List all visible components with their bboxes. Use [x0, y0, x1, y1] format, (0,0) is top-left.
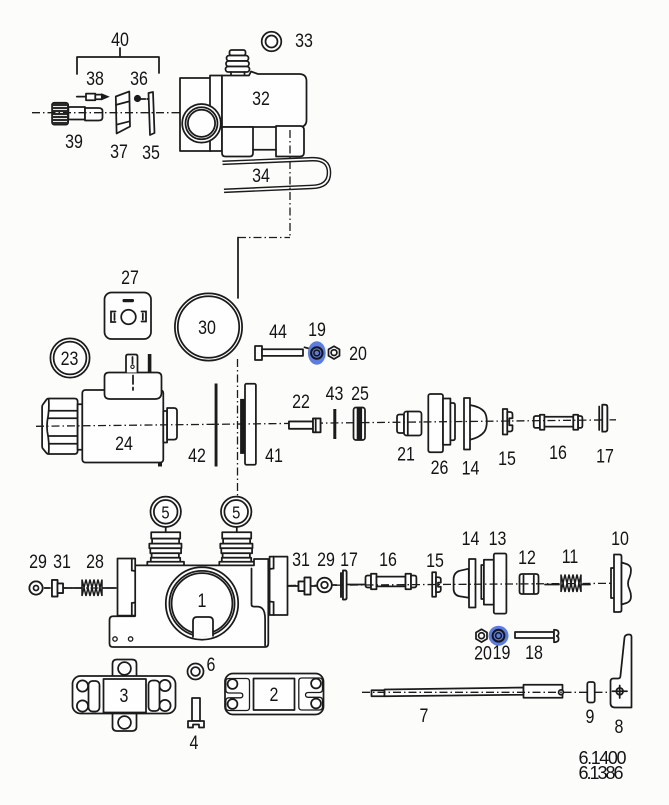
svg-text:7: 7	[420, 705, 429, 727]
svg-text:4: 4	[190, 732, 199, 754]
svg-text:16: 16	[549, 442, 567, 464]
svg-text:34: 34	[252, 165, 270, 187]
svg-text:29: 29	[317, 549, 335, 571]
svg-text:18: 18	[525, 642, 543, 664]
svg-text:14: 14	[462, 528, 480, 550]
svg-text:13: 13	[489, 528, 507, 550]
svg-text:21: 21	[397, 443, 415, 465]
svg-text:40: 40	[111, 29, 129, 51]
svg-text:11: 11	[562, 546, 579, 568]
svg-text:5: 5	[232, 503, 240, 523]
svg-text:26: 26	[431, 457, 449, 479]
svg-text:14: 14	[462, 457, 480, 479]
svg-text:19: 19	[493, 642, 511, 664]
svg-text:8: 8	[615, 716, 624, 738]
svg-text:10: 10	[611, 528, 629, 550]
svg-text:31: 31	[53, 551, 71, 573]
svg-text:3: 3	[120, 685, 129, 707]
svg-text:35: 35	[142, 142, 160, 164]
svg-text:5: 5	[161, 503, 169, 523]
svg-text:15: 15	[498, 448, 516, 470]
svg-text:15: 15	[426, 550, 444, 572]
svg-text:6: 6	[207, 654, 216, 676]
svg-text:23: 23	[61, 348, 79, 370]
svg-text:32: 32	[252, 88, 270, 110]
svg-text:31: 31	[292, 549, 310, 571]
svg-text:41: 41	[265, 445, 283, 467]
svg-text:22: 22	[292, 391, 310, 413]
svg-text:28: 28	[86, 551, 104, 573]
svg-text:20: 20	[474, 642, 492, 664]
svg-text:30: 30	[198, 317, 216, 339]
svg-text:38: 38	[86, 68, 104, 90]
svg-text:43: 43	[326, 383, 344, 405]
svg-text:12: 12	[518, 547, 536, 569]
svg-text:17: 17	[596, 445, 614, 467]
svg-text:42: 42	[188, 445, 206, 467]
svg-text:19: 19	[308, 319, 326, 341]
svg-text:37: 37	[110, 141, 128, 163]
svg-text:33: 33	[295, 30, 313, 52]
svg-text:39: 39	[65, 131, 83, 153]
svg-text:29: 29	[29, 551, 47, 573]
svg-text:16: 16	[379, 549, 397, 571]
svg-text:2: 2	[270, 684, 279, 706]
svg-text:27: 27	[121, 267, 139, 289]
svg-text:17: 17	[340, 549, 358, 571]
svg-text:36: 36	[130, 68, 148, 90]
svg-text:44: 44	[269, 321, 287, 343]
svg-text:20: 20	[349, 343, 367, 365]
svg-text:1: 1	[198, 590, 207, 612]
svg-text:25: 25	[351, 383, 369, 405]
svg-text:9: 9	[586, 706, 595, 728]
svg-text:6.1386: 6.1386	[579, 763, 624, 783]
svg-text:24: 24	[115, 433, 133, 455]
